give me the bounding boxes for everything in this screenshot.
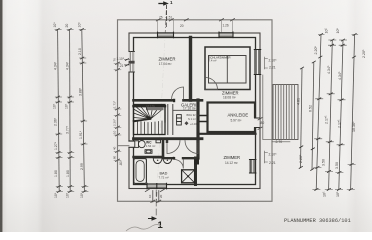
- balcony deck: [273, 85, 298, 140]
- interior floor fill: [129, 33, 260, 189]
- ankleide west door jambs: [200, 116, 206, 122]
- se zimmer north wall: [198, 133, 256, 135]
- corridor arc east: [185, 141, 198, 154]
- corridor door east: [197, 140, 199, 143]
- corridor arc west: [167, 141, 180, 154]
- ticks on left eaves line: [116, 62, 120, 161]
- chain R2: [325, 39, 337, 191]
- balcony west rail: [263, 75, 273, 140]
- right wall window N: [254, 50, 260, 75]
- wall V2 corridor/ankleide west: [196, 100, 199, 158]
- right chain labels: [297, 28, 367, 197]
- chain R4: [347, 33, 358, 190]
- door arc NW room: [172, 87, 184, 99]
- schlafzimmer box walls: [205, 47, 250, 90]
- bad door jamb: [173, 157, 175, 160]
- chain L3: [79, 28, 89, 192]
- bad door arc: [174, 160, 183, 169]
- chain R3: [335, 39, 347, 191]
- galerie balustrade: [173, 109, 197, 111]
- exterior wall outer face: [129, 33, 260, 189]
- exterior wall inner face: [134, 38, 256, 185]
- corridor south wall: [163, 157, 196, 159]
- chain R1: [312, 33, 324, 190]
- schlafzimmer door arc: [206, 78, 218, 90]
- entrance door left wall: [119, 141, 135, 147]
- window1 extension lines: [158, 20, 174, 32]
- ankleide box: [208, 103, 256, 133]
- wc vent: [156, 140, 161, 143]
- top wall window 1: [158, 32, 174, 38]
- section line top: [159, 1, 169, 26]
- left dimension chains: [55, 28, 89, 192]
- right wall window S: [250, 160, 256, 174]
- bad east wall: [194, 158, 197, 185]
- balcony door gap east wall: [254, 118, 263, 130]
- stairs: [134, 105, 166, 135]
- chain L1: [55, 28, 63, 192]
- level marker diamond: [185, 121, 189, 125]
- wc sink: [145, 150, 152, 154]
- chimney block: [194, 158, 199, 165]
- bed / wardrobe: [209, 56, 247, 84]
- bottom dim ticks: [145, 189, 164, 202]
- dim pair mid-right: [265, 151, 268, 163]
- dim pair top-right: [265, 57, 268, 69]
- wall H1 galerie north: [134, 99, 203, 102]
- bottom wall door: [147, 183, 167, 189]
- left page edge: [0, 0, 2, 232]
- shaft symbol: [177, 115, 182, 125]
- bed divider: [226, 56, 228, 84]
- chain C5 short: [299, 67, 304, 169]
- door jamb H1: [173, 99, 175, 102]
- shower: [182, 170, 195, 183]
- wall H stairs south: [134, 137, 203, 140]
- section line bottom: [149, 190, 158, 221]
- top wall window 2: [219, 32, 233, 38]
- section dash-dot line through building: [165, 10, 166, 33]
- wc south wall: [134, 156, 164, 158]
- chain L2: [67, 28, 75, 192]
- bad sinks: [153, 158, 172, 164]
- toilet: [135, 141, 145, 148]
- bathtub: [134, 159, 147, 184]
- room labels: [113, 0, 351, 231]
- left wall window NW: [125, 52, 135, 73]
- corridor door west: [166, 140, 168, 143]
- signature squiggle: [126, 225, 161, 232]
- ticks on top eaves line: [156, 19, 234, 21]
- eaves outline A: [118, 20, 273, 202]
- wc east wall: [162, 140, 165, 157]
- chain C6 short: [310, 61, 316, 171]
- window2 extension lines: [222, 20, 233, 32]
- galerie rail: [168, 105, 173, 135]
- right dimension chains: [299, 33, 358, 190]
- left chain labels: [52, 22, 84, 198]
- balcony south dim: [272, 141, 290, 143]
- partition P1: [189, 38, 192, 101]
